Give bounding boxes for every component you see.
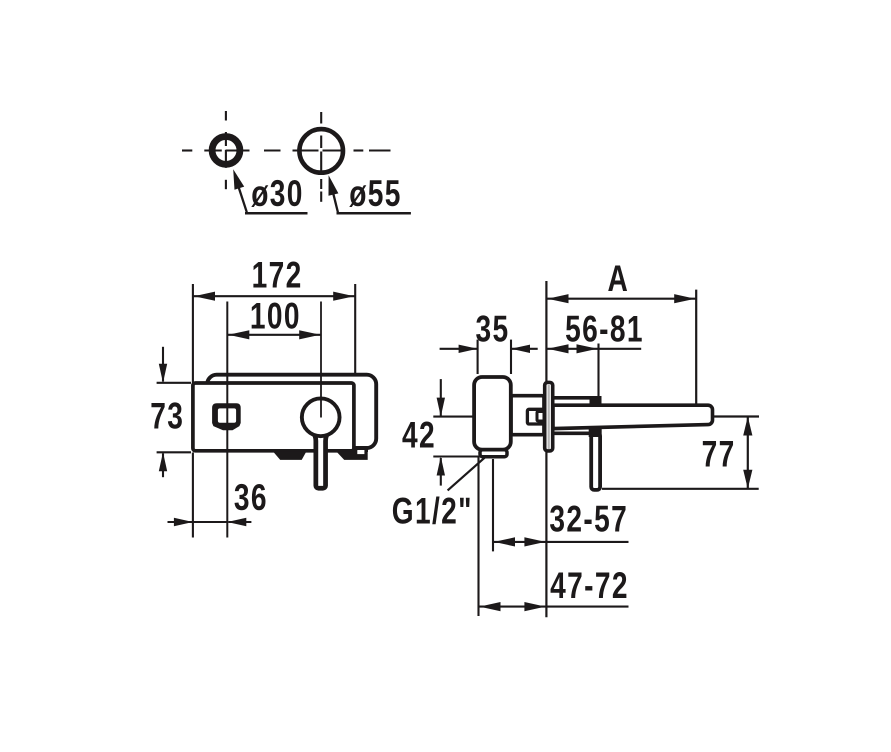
cartridge step tiny bbox=[537, 412, 544, 422]
mounting hole circle ø30 bbox=[212, 137, 240, 165]
label A bbox=[607, 257, 629, 299]
valve body (side view) bbox=[474, 377, 511, 450]
hole 55 vertical centerline (dashed) bbox=[320, 112, 322, 202]
svg-text:73: 73 bbox=[150, 395, 184, 437]
svg-text:G1/2": G1/2" bbox=[392, 490, 473, 532]
label 42 bbox=[402, 414, 436, 456]
label 172 bbox=[252, 254, 303, 296]
svg-text:36: 36 bbox=[234, 476, 268, 518]
mounting tab left bbox=[273, 451, 307, 460]
dim A dimension line bbox=[546, 294, 696, 303]
svg-text:172: 172 bbox=[252, 254, 303, 296]
spout nut top bbox=[590, 396, 602, 407]
handle lever (side view) bbox=[591, 433, 600, 490]
label 73 bbox=[150, 395, 184, 437]
dim 35 extension lines bbox=[478, 340, 511, 374]
dim 77 (vertical) bbox=[602, 417, 759, 489]
dim 100 extension (right, to handle center) bbox=[320, 302, 322, 418]
mounting tab right bbox=[336, 448, 368, 460]
dim 32-57 extension line bbox=[492, 459, 494, 551]
label ø30 bbox=[251, 172, 304, 214]
svg-text:56-81: 56-81 bbox=[565, 308, 644, 350]
label 32-57 bbox=[549, 498, 628, 540]
svg-text:42: 42 bbox=[402, 414, 436, 456]
hole 30 vertical centerline (dashed) bbox=[225, 111, 227, 189]
svg-text:ø30: ø30 bbox=[251, 172, 304, 214]
leader arrow ø55 bbox=[329, 175, 411, 213]
label 47-72 bbox=[550, 564, 629, 606]
svg-text:32-57: 32-57 bbox=[549, 498, 628, 540]
label G1/2" bbox=[392, 490, 473, 532]
dim 35 (arrows outside) bbox=[440, 345, 538, 353]
dim 100/36 extension (left, through outlet) bbox=[226, 302, 228, 538]
G1/2 leader line bbox=[448, 457, 486, 490]
leader arrow ø30 bbox=[233, 169, 307, 213]
dim 172 extension line right bbox=[354, 284, 356, 378]
dim 56-81 dimension line bbox=[546, 344, 641, 353]
svg-text:100: 100 bbox=[250, 295, 301, 337]
label ø55 bbox=[349, 172, 402, 214]
label 100 bbox=[250, 295, 301, 337]
label 35 bbox=[475, 308, 509, 350]
handle lever stem (front view) bbox=[304, 426, 337, 488]
label 36 bbox=[234, 476, 268, 518]
G1/2 connection stub bbox=[480, 450, 507, 457]
dim 32-57 dimension line bbox=[493, 537, 629, 546]
wall reference line bbox=[545, 281, 547, 617]
handle pivot circle (front view) bbox=[302, 398, 340, 436]
mounting hole circle ø55 bbox=[299, 129, 343, 173]
escutcheon back plate bbox=[207, 375, 376, 448]
mounting pipe bbox=[552, 398, 591, 434]
dim 172 dimension line bbox=[193, 292, 355, 301]
dim 56-81 extension (lever) bbox=[597, 344, 599, 399]
dim 100 dimension line bbox=[227, 330, 321, 339]
cartridge step small bbox=[527, 409, 544, 424]
wall flange (side view) bbox=[545, 382, 553, 451]
svg-text:ø55: ø55 bbox=[349, 172, 402, 214]
hole centerline horizontal (dashed) bbox=[182, 149, 391, 151]
dim 36 (arrows outside) bbox=[168, 518, 252, 526]
body left edge extension bbox=[192, 453, 194, 538]
label 56-81 bbox=[565, 308, 644, 350]
dim 42 (vertical, arrows outside) bbox=[433, 379, 479, 486]
dim A extension line right bbox=[695, 290, 697, 417]
svg-text:35: 35 bbox=[475, 308, 509, 350]
svg-text:47-72: 47-72 bbox=[550, 564, 629, 606]
cartridge step large bbox=[511, 396, 544, 435]
dim 47-72 extension line bbox=[477, 457, 479, 616]
dim 172 extension line left bbox=[192, 284, 194, 383]
svg-text:A: A bbox=[607, 257, 629, 299]
svg-text:77: 77 bbox=[702, 433, 736, 475]
mixer body front rect bbox=[193, 383, 354, 451]
label 77 bbox=[702, 433, 736, 475]
spout (side view) bbox=[553, 405, 713, 428]
dim 73 (vertical, arrows outside) bbox=[157, 347, 191, 477]
spout outlet square (front view) bbox=[212, 403, 241, 430]
dim 47-72 dimension line bbox=[479, 602, 629, 611]
spout nut bottom bbox=[589, 427, 602, 438]
